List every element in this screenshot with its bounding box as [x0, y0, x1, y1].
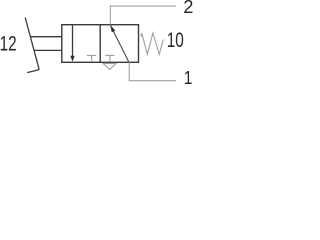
label 1 [184, 68, 193, 88]
valve body outline [62, 25, 139, 63]
svg-text:1: 1 [184, 68, 193, 88]
return spring 10 [141, 33, 163, 54]
svg-text:12: 12 [0, 31, 17, 55]
pedal lever slash [25, 18, 39, 70]
label 10 [167, 27, 184, 51]
actuator rod upper line [31, 36, 62, 38]
left-position flow arrowhead [70, 56, 74, 62]
exhaust triangle port 3 [103, 63, 116, 69]
pedal foot bar [27, 70, 39, 73]
valve position divider [99, 25, 101, 63]
left-position blocked port T [87, 55, 96, 62]
svg-text:2: 2 [183, 0, 193, 17]
right-position blocked port T [105, 55, 114, 62]
left-position flow line [72, 25, 74, 56]
label 12 [0, 31, 17, 55]
right-position diagonal flow line [110, 25, 128, 62]
port 1 line and label line [129, 62, 176, 80]
right-position diagonal arrowhead [110, 25, 115, 32]
actuator rod lower line [34, 49, 62, 51]
port 2 stub and label line [110, 6, 176, 25]
svg-text:10: 10 [167, 27, 184, 51]
